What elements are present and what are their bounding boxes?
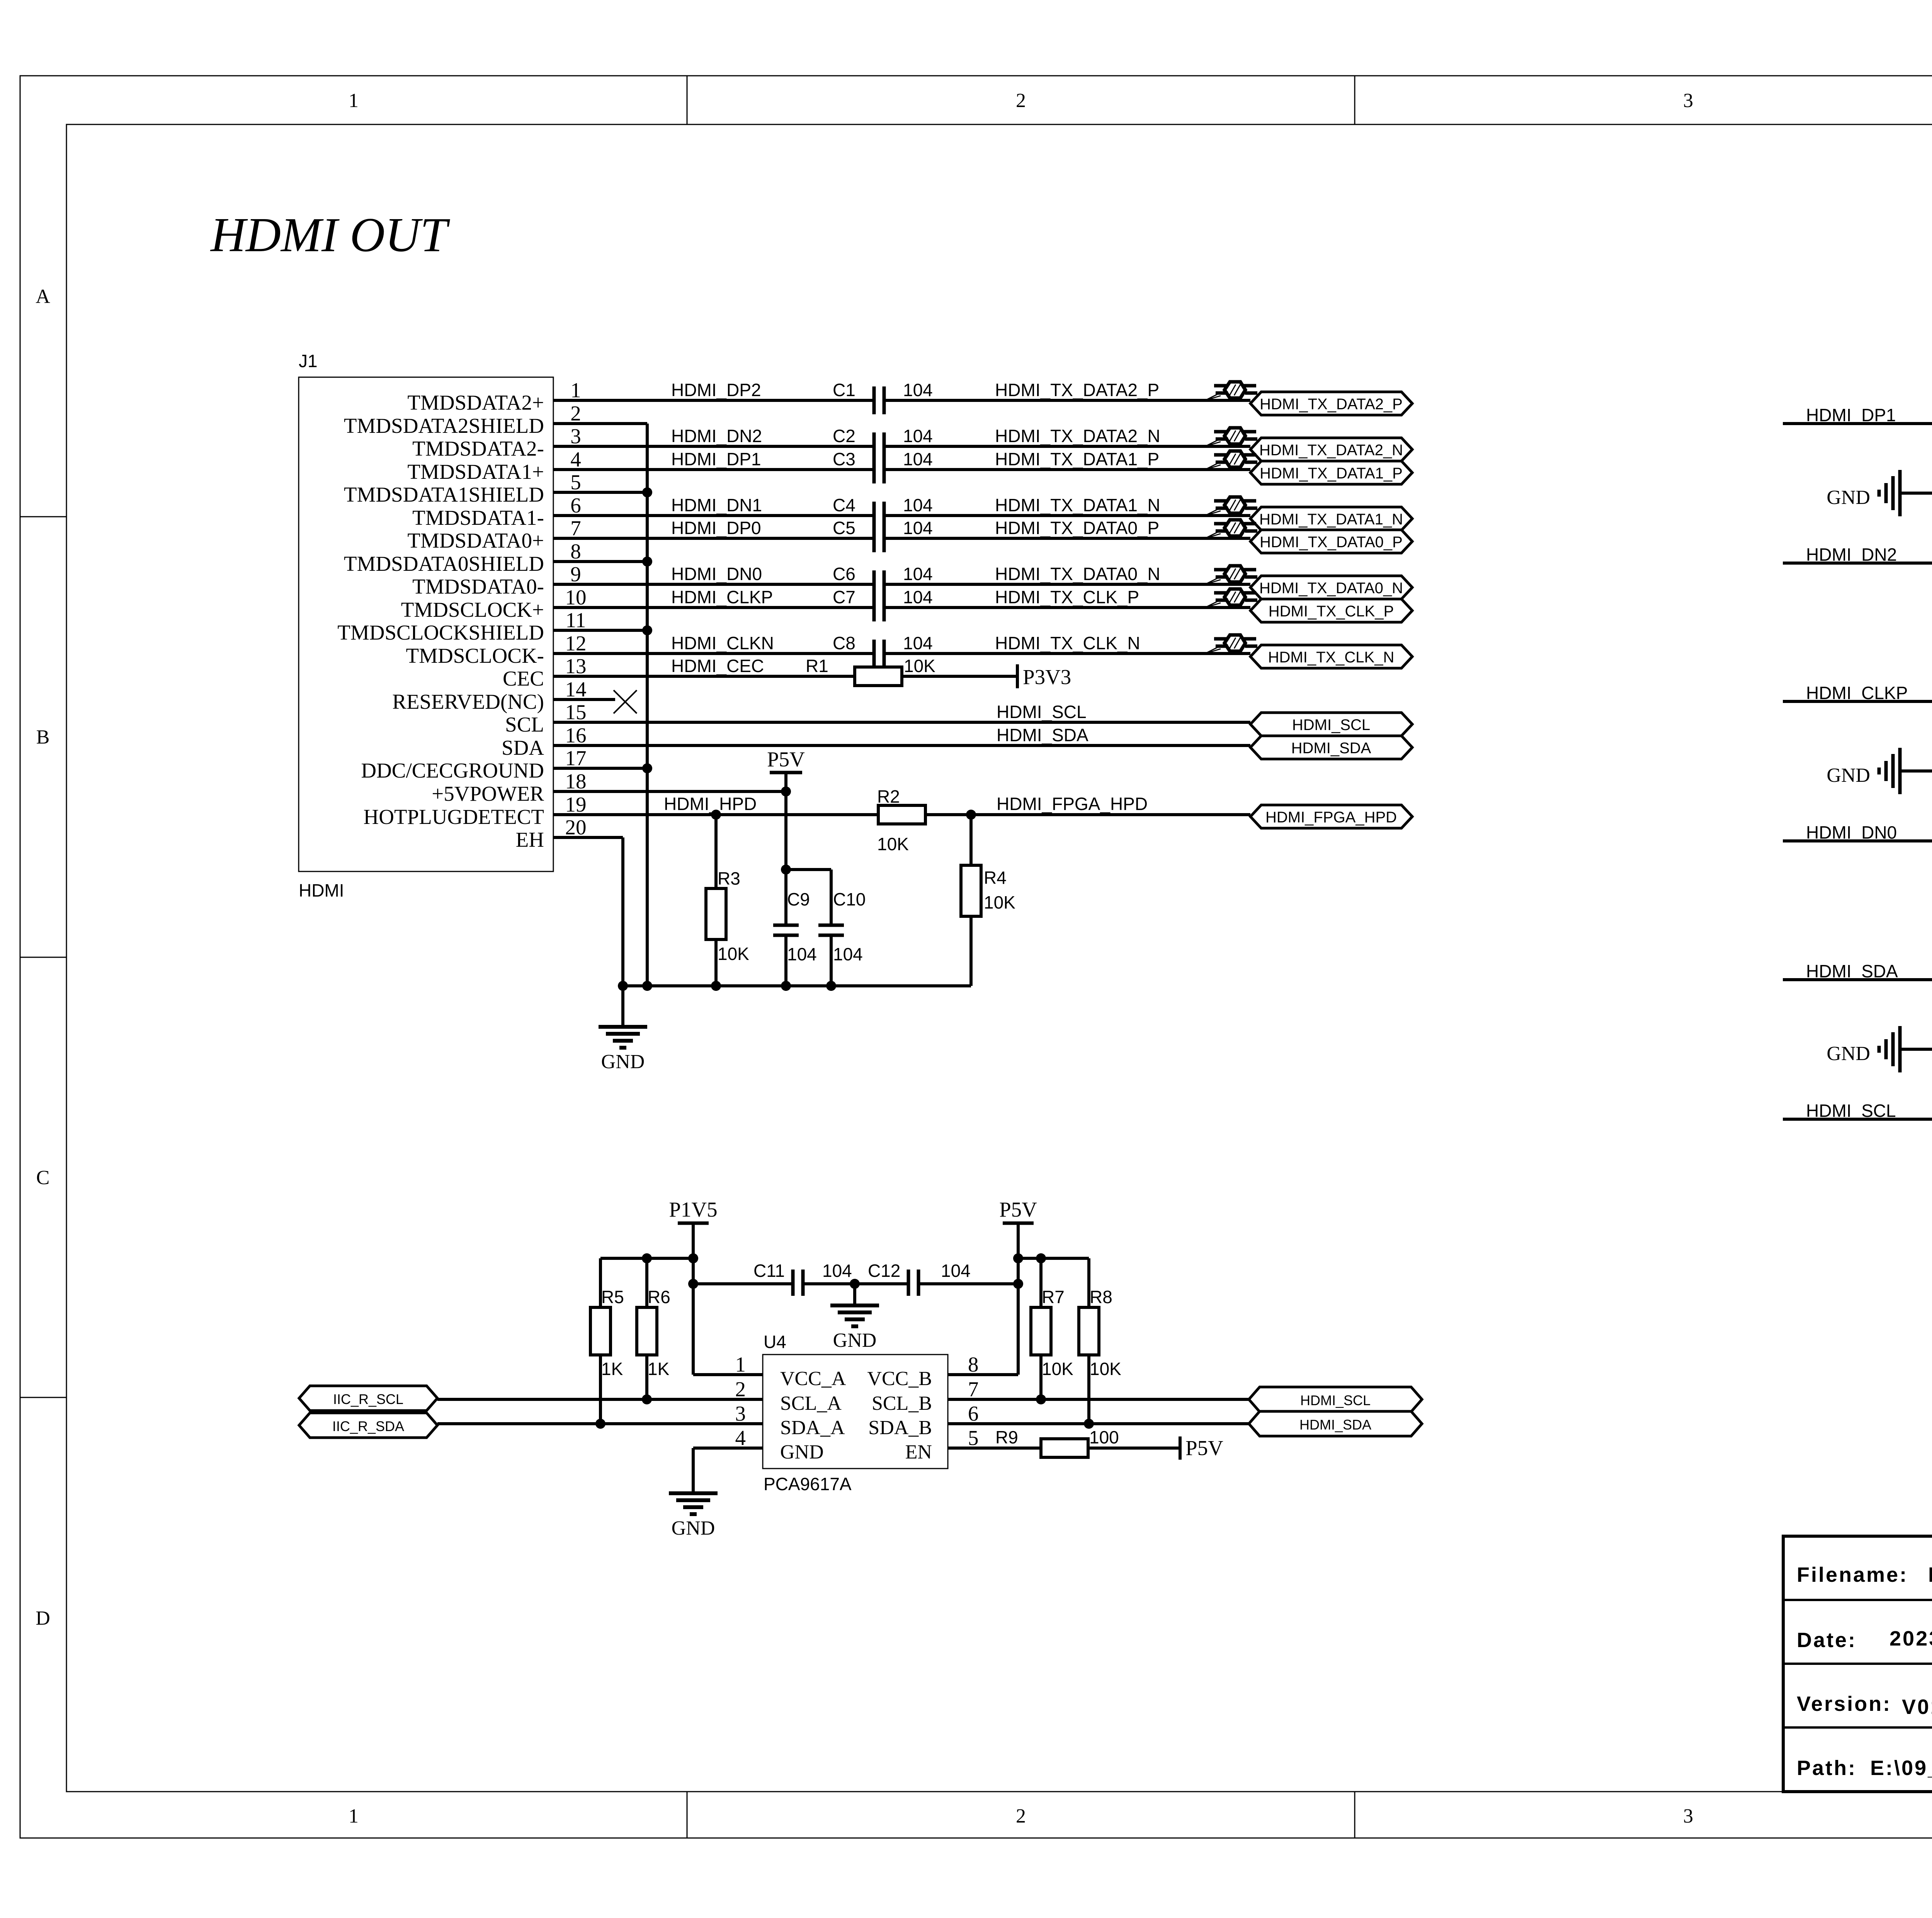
svg-text:7: 7	[968, 1377, 979, 1401]
port HDMI_SCL	[1250, 713, 1412, 736]
svg-text:GND: GND	[1827, 764, 1870, 786]
svg-text:HDMI_DN1: HDMI_DN1	[671, 495, 762, 515]
svg-text:8: 8	[570, 539, 581, 563]
svg-text:TMDSDATA2SHIELD: TMDSDATA2SHIELD	[344, 414, 544, 437]
port HDMI_SCL (bottom)	[1249, 1387, 1422, 1412]
svg-text:HDMI: HDMI	[299, 880, 344, 900]
junction dot R7/SCL_B	[1036, 1394, 1046, 1404]
svg-text:2: 2	[570, 402, 581, 425]
svg-text:TMDSDATA1-: TMDSDATA1-	[412, 506, 544, 529]
svg-text:HDMI_TX_CLK_N: HDMI_TX_CLK_N	[995, 633, 1140, 653]
svg-text:5: 5	[968, 1426, 979, 1450]
svg-text:3: 3	[570, 424, 581, 448]
svg-text:SDA_B: SDA_B	[868, 1417, 932, 1439]
wire J1 pin 14 (no connect)	[553, 698, 615, 701]
svg-text:6: 6	[570, 494, 581, 517]
junction dots on shield bus	[618, 487, 652, 991]
capacitor C4 104	[874, 502, 884, 529]
svg-text:7: 7	[570, 516, 581, 540]
junction dot pin18/P5V	[781, 786, 791, 796]
capacitor C9 104	[773, 870, 817, 986]
svg-text:HDMI_SDA: HDMI_SDA	[997, 725, 1088, 745]
net label HDMI_DP2	[671, 380, 761, 400]
resistor R5 1K	[590, 1287, 624, 1424]
svg-text:A: A	[36, 286, 50, 308]
svg-text:104: 104	[903, 380, 933, 400]
svg-text:P5V: P5V	[767, 747, 805, 771]
svg-text:3: 3	[1683, 1805, 1693, 1827]
svg-text:R3: R3	[718, 868, 740, 888]
net label HDMI_DN1	[671, 495, 762, 515]
svg-text:12: 12	[565, 631, 587, 655]
wire P1V5 to U4 VCC_A	[693, 1223, 763, 1375]
svg-text:104: 104	[903, 633, 933, 653]
svg-text:HOTPLUGDETECT: HOTPLUGDETECT	[364, 805, 544, 829]
svg-text:Path:: Path:	[1797, 1756, 1857, 1780]
ground GND (J1 shield)	[599, 986, 647, 1073]
svg-text:11: 11	[566, 608, 586, 632]
wire HDMI_FPGA_HPD	[925, 813, 1250, 816]
junction dot R3 bottom	[711, 981, 721, 991]
wire J1 pin 9 net HDMI_DN0	[553, 583, 1250, 586]
svg-text:2023/8/6: 2023/8/6	[1889, 1627, 1932, 1650]
wire J1 pin 10 net HDMI_CLKP	[553, 606, 1250, 609]
svg-text:HDMI_CLKN: HDMI_CLKN	[671, 633, 774, 653]
zone labels top	[349, 90, 1932, 112]
svg-text:P5V: P5V	[1185, 1436, 1223, 1460]
svg-text:EN: EN	[905, 1441, 932, 1463]
net label HDMI_CEC	[671, 656, 764, 676]
svg-text:6: 6	[968, 1402, 979, 1425]
capacitor C8 104	[874, 640, 884, 667]
svg-text:HDMI_FPGA_HPD: HDMI_FPGA_HPD	[997, 794, 1148, 814]
wire R9 to P5V	[1088, 1447, 1180, 1450]
value label 104 (C7)	[903, 587, 933, 607]
svg-text:R4: R4	[984, 868, 1007, 888]
zone labels bottom	[349, 1805, 1932, 1827]
svg-text:TMDSDATA2+: TMDSDATA2+	[407, 391, 544, 414]
wire C10 branch	[786, 870, 831, 924]
svg-text:D: D	[36, 1607, 50, 1629]
net label HDMI_FPGA_HPD	[997, 794, 1148, 814]
ground GND (C11/C12)	[830, 1284, 879, 1351]
differential pair directive (HDMI_TX_CLK_P)	[1205, 589, 1257, 608]
wire J1 pin 16 net HDMI_SDA	[553, 744, 1250, 747]
svg-text:104: 104	[903, 495, 933, 515]
resistor R9 100	[995, 1427, 1119, 1457]
svg-text:C12: C12	[868, 1261, 900, 1281]
wire J1 pin 19 HDMI_HPD	[553, 813, 878, 816]
svg-text:R9: R9	[995, 1427, 1018, 1447]
capacitor C10 104	[818, 889, 866, 986]
power P5V (EN pullup)	[1180, 1436, 1223, 1460]
svg-text:10K: 10K	[718, 944, 749, 964]
title block grid	[1783, 1536, 1932, 1792]
svg-text:HDMI_SDA: HDMI_SDA	[1806, 961, 1898, 981]
net label HDMI_SDA	[997, 725, 1088, 745]
connector J1 (HDMI receptacle)	[299, 351, 587, 900]
svg-text:HDMI_DN0: HDMI_DN0	[671, 564, 762, 584]
wire U4 EN to R9	[948, 1447, 1041, 1450]
designator label C6	[833, 564, 855, 584]
designator label C1	[833, 380, 855, 400]
svg-text:P5V: P5V	[999, 1198, 1037, 1221]
svg-text:104: 104	[903, 518, 933, 538]
svg-text:HDMI_TX_CLK_N: HDMI_TX_CLK_N	[1268, 649, 1395, 666]
differential pair directive (HDMI_TX_DATA0_N)	[1205, 566, 1257, 584]
value label 104 (C2)	[903, 426, 933, 446]
svg-text:GND: GND	[1827, 487, 1870, 509]
power P3V3	[1017, 664, 1071, 689]
net label HDMI_CLKN	[671, 633, 774, 653]
title block field Filename	[1797, 1563, 1932, 1586]
svg-text:4: 4	[735, 1426, 746, 1450]
wire shield bus (J1 pins 2,5,8,11,17,20 to GND)	[553, 424, 971, 986]
svg-text:14: 14	[565, 677, 587, 701]
port IIC_R_SCL	[299, 1386, 437, 1411]
svg-text:HDMI_SDA: HDMI_SDA	[1291, 740, 1371, 757]
svg-text:HDMI_TX_DATA2_N: HDMI_TX_DATA2_N	[1259, 442, 1403, 459]
svg-text:17: 17	[565, 746, 587, 770]
port HDMI_TX_DATA0_N	[1250, 576, 1412, 599]
svg-text:HDMI_SCL: HDMI_SCL	[1292, 716, 1370, 734]
svg-text:1K: 1K	[648, 1359, 670, 1379]
value label 104 (C5)	[903, 518, 933, 538]
port IIC_R_SDA	[299, 1413, 437, 1438]
svg-text:1: 1	[570, 378, 581, 402]
svg-text:HDMI_TX_CLK_P: HDMI_TX_CLK_P	[995, 587, 1139, 607]
svg-text:HDMI OUT: HDMI OUT	[210, 208, 450, 262]
wire U4 GND pin to ground	[693, 1448, 763, 1493]
svg-text:HDMI_TX_DATA0_N: HDMI_TX_DATA0_N	[995, 564, 1160, 584]
svg-text:5: 5	[570, 470, 581, 494]
resistor R8 10K	[1079, 1287, 1121, 1424]
svg-text:U4: U4	[764, 1332, 786, 1352]
designator label C2	[833, 426, 855, 446]
svg-text:VCC_A: VCC_A	[780, 1368, 846, 1390]
svg-text:104: 104	[941, 1261, 971, 1281]
svg-text:10: 10	[565, 585, 587, 609]
port HDMI_TX_DATA1_N	[1250, 507, 1412, 530]
svg-text:HDMI_TX_DATA0_P: HDMI_TX_DATA0_P	[1260, 534, 1403, 551]
value label 104 (C1)	[903, 380, 933, 400]
svg-text:VCC_B: VCC_B	[867, 1368, 932, 1390]
junction dot R5/SDA	[595, 1419, 605, 1429]
wire decoupling row C11/C12	[693, 1282, 1018, 1285]
designator label C3	[833, 449, 855, 469]
svg-text:1K: 1K	[601, 1359, 623, 1379]
svg-text:9: 9	[570, 562, 581, 586]
svg-text:HDMI_CLKP: HDMI_CLKP	[671, 587, 773, 607]
port HDMI_FPGA_HPD	[1250, 805, 1412, 828]
svg-text:HDMI_CEC: HDMI_CEC	[671, 656, 764, 676]
port HDMI_TX_CLK_P	[1250, 599, 1412, 622]
svg-text:Filename:: Filename:	[1797, 1563, 1908, 1586]
svg-text:C: C	[36, 1167, 50, 1189]
junction dot R8/SDA_B	[1084, 1419, 1094, 1429]
wire J1 pin 3 net HDMI_DN2	[553, 445, 1250, 448]
net label HDMI_TX_DATA2_P	[995, 380, 1159, 400]
junction dot C9 top branch	[781, 865, 791, 875]
svg-text:2: 2	[735, 1377, 746, 1401]
svg-text:SDA_A: SDA_A	[780, 1417, 845, 1439]
wire P5V rail to R7/R8	[1018, 1258, 1089, 1307]
svg-text:HDMI_DP2: HDMI_DP2	[671, 380, 761, 400]
junction dot P5V rail	[1013, 1253, 1046, 1263]
svg-text:HDMI_DN2: HDMI_DN2	[671, 426, 762, 446]
svg-text:HDMI_TX_DATA2_N: HDMI_TX_DATA2_N	[995, 426, 1160, 446]
junction dots C9/C10 bottom	[781, 981, 836, 991]
svg-text:4: 4	[570, 448, 581, 471]
capacitor C3 104	[874, 456, 884, 483]
svg-text:HDMI_TX_DATA1_N: HDMI_TX_DATA1_N	[1259, 511, 1403, 528]
svg-text:C6: C6	[833, 564, 855, 584]
net label HDMI_DP1	[671, 449, 761, 469]
wire J1 pin 7 net HDMI_DP0	[553, 537, 1250, 540]
svg-text:HDMI_HPD: HDMI_HPD	[664, 794, 757, 814]
IC U4 PCA9617A	[735, 1332, 979, 1494]
svg-text:DDC/CECGROUND: DDC/CECGROUND	[361, 759, 544, 782]
net label HDMI_DP0	[671, 518, 761, 538]
net label HDMI_TX_DATA0_N	[995, 564, 1160, 584]
svg-text:10K: 10K	[1090, 1359, 1121, 1379]
designator label C4	[833, 495, 855, 515]
svg-text:+5VPOWER: +5VPOWER	[432, 782, 544, 805]
svg-text:HDMI_TX_DATA2_P: HDMI_TX_DATA2_P	[1260, 396, 1403, 413]
svg-text:Date:: Date:	[1797, 1629, 1857, 1652]
net label HDMI_SCL	[997, 702, 1087, 722]
wire P5V to U4 VCC_B	[948, 1223, 1018, 1375]
svg-text:B: B	[36, 726, 50, 748]
svg-text:HDMI_TX_DATA1_P: HDMI_TX_DATA1_P	[995, 449, 1159, 469]
wires U3 pins and internal rails	[1783, 956, 1932, 1143]
svg-text:GND: GND	[601, 1051, 645, 1073]
net label HDMI_TX_CLK_P	[995, 587, 1139, 607]
svg-text:HDMI.SchDoc: HDMI.SchDoc	[1928, 1563, 1932, 1586]
wire U4 SCL_B to HDMI_SCL port	[948, 1398, 1249, 1401]
svg-text:10K: 10K	[877, 834, 909, 854]
svg-text:GND: GND	[672, 1517, 715, 1539]
svg-text:18: 18	[565, 769, 587, 793]
svg-text:HDMI_DN0: HDMI_DN0	[1806, 822, 1897, 842]
svg-text:C3: C3	[833, 449, 855, 469]
wire J1 pin 1 net HDMI_DP2	[553, 399, 1250, 402]
port HDMI_SDA	[1250, 736, 1412, 759]
title block field Date	[1797, 1627, 1932, 1652]
svg-text:HDMI_SCL: HDMI_SCL	[997, 702, 1087, 722]
title block field Path	[1797, 1756, 1932, 1780]
svg-text:HDMI_FPGA_HPD: HDMI_FPGA_HPD	[1265, 809, 1397, 826]
differential pair directive (HDMI_TX_DATA2_N)	[1205, 428, 1257, 446]
svg-text:HDMI_DN2: HDMI_DN2	[1806, 545, 1897, 565]
resistor R4 10K	[961, 815, 1015, 986]
svg-text:HDMI_DP0: HDMI_DP0	[671, 518, 761, 538]
differential pair directive (HDMI_TX_DATA1_P)	[1205, 451, 1257, 470]
svg-text:13: 13	[565, 654, 587, 678]
zone labels left	[36, 286, 50, 1629]
ground GND (U2 pin 2)	[1827, 748, 1900, 794]
svg-text:RESERVED(NC): RESERVED(NC)	[392, 690, 544, 713]
net labels around U1	[1806, 405, 1932, 565]
svg-text:HDMI_SDA: HDMI_SDA	[1299, 1417, 1371, 1433]
svg-text:HDMI_DP1: HDMI_DP1	[1806, 405, 1896, 425]
wire IIC_R_SCL to U4 SCL_A	[437, 1398, 763, 1401]
resistor R2 10K	[877, 786, 925, 854]
svg-text:TMDSCLOCK-: TMDSCLOCK-	[406, 644, 544, 667]
svg-text:R6: R6	[648, 1287, 670, 1307]
svg-text:TMDSDATA0SHIELD: TMDSDATA0SHIELD	[344, 552, 544, 575]
port HDMI_TX_DATA0_P	[1250, 530, 1412, 553]
svg-text:SCL_B: SCL_B	[872, 1392, 932, 1414]
net labels around U2	[1806, 683, 1932, 842]
svg-text:PCA9617A: PCA9617A	[764, 1474, 852, 1494]
svg-text:2: 2	[1016, 1805, 1026, 1827]
svg-text:19: 19	[565, 793, 587, 816]
port HDMI_TX_DATA1_P	[1250, 461, 1412, 484]
value label 104 (C4)	[903, 495, 933, 515]
differential pair directive (HDMI_TX_DATA1_N)	[1205, 497, 1257, 516]
svg-text:TMDSDATA0+: TMDSDATA0+	[407, 529, 544, 552]
net label HDMI_DN2	[671, 426, 762, 446]
wire J1 pin 6 net HDMI_DN1	[553, 514, 1250, 517]
svg-text:HDMI_TX_DATA2_P: HDMI_TX_DATA2_P	[995, 380, 1159, 400]
svg-text:104: 104	[787, 944, 817, 964]
junction dots P1V5 rail	[642, 1253, 698, 1263]
svg-text:TMDSDATA0-: TMDSDATA0-	[412, 575, 544, 598]
differential pair directive (HDMI_TX_DATA2_P)	[1205, 382, 1257, 400]
power P1V5	[669, 1198, 717, 1223]
svg-text:TMDSCLOCKSHIELD: TMDSCLOCKSHIELD	[337, 621, 544, 644]
net label HDMI_CLKP	[671, 587, 773, 607]
capacitor C5 104	[874, 524, 884, 552]
svg-text:GND: GND	[833, 1329, 877, 1351]
net label HDMI_HPD	[664, 794, 757, 814]
capacitor C1 104	[874, 386, 884, 414]
svg-text:EH: EH	[516, 828, 544, 851]
svg-text:104: 104	[903, 449, 933, 469]
port HDMI_TX_DATA2_N	[1250, 438, 1412, 461]
wire IIC_R_SDA to U4 SDA_A	[437, 1422, 763, 1425]
designator label C7	[833, 587, 855, 607]
svg-text:V01: V01	[1902, 1695, 1932, 1719]
value label 104 (C3)	[903, 449, 933, 469]
svg-text:1: 1	[349, 1805, 359, 1827]
svg-text:104: 104	[903, 564, 933, 584]
svg-text:104: 104	[833, 944, 863, 964]
svg-text:SCL_A: SCL_A	[780, 1392, 842, 1414]
wire U4 SDA_B to HDMI_SDA port	[948, 1422, 1249, 1425]
wire P1V5 rail to R5/R6	[600, 1258, 693, 1307]
wire J1 pin 13 net HDMI_CEC	[553, 675, 1017, 678]
port HDMI_TX_CLK_N	[1250, 645, 1412, 668]
power P5V (HDMI +5V)	[767, 747, 805, 870]
differential pair directive (HDMI_TX_DATA0_P)	[1205, 520, 1257, 538]
capacitor C12 104	[868, 1261, 971, 1296]
svg-text:IIC_R_SDA: IIC_R_SDA	[332, 1418, 404, 1434]
resistor R3 10K	[706, 815, 749, 986]
svg-text:HDMI_TX_DATA1_N: HDMI_TX_DATA1_N	[995, 495, 1160, 515]
designator label C8	[833, 633, 855, 653]
differential pair directive (HDMI_TX_CLK_N)	[1205, 635, 1257, 654]
svg-text:2: 2	[1016, 90, 1026, 112]
svg-text:R1: R1	[806, 656, 828, 676]
svg-text:CEC: CEC	[503, 667, 544, 690]
svg-text:TMDSDATA1+: TMDSDATA1+	[407, 460, 544, 483]
svg-text:Version:: Version:	[1797, 1692, 1891, 1715]
svg-text:104: 104	[903, 426, 933, 446]
svg-text:20: 20	[565, 815, 587, 839]
svg-text:HDMI_DP1: HDMI_DP1	[671, 449, 761, 469]
svg-text:P1V5: P1V5	[669, 1198, 717, 1221]
net label HDMI_TX_DATA2_N	[995, 426, 1160, 446]
wire J1 pin 12 net HDMI_CLKN	[553, 652, 1250, 655]
svg-text:8: 8	[968, 1353, 979, 1376]
svg-text:J1: J1	[299, 351, 318, 371]
net label HDMI_TX_DATA0_P	[995, 518, 1159, 538]
svg-text:TMDSDATA1SHIELD: TMDSDATA1SHIELD	[344, 483, 544, 506]
junction dots HPD row	[711, 810, 976, 820]
net label HDMI_TX_DATA1_P	[995, 449, 1159, 469]
svg-text:C10: C10	[833, 889, 866, 909]
net label HDMI_TX_DATA1_N	[995, 495, 1160, 515]
svg-text:SDA: SDA	[502, 736, 544, 759]
svg-text:10K: 10K	[1042, 1359, 1073, 1379]
resistor R6 1K	[637, 1287, 670, 1399]
svg-text:R2: R2	[877, 786, 900, 807]
svg-text:HDMI_SCL: HDMI_SCL	[1806, 1101, 1896, 1121]
svg-text:TMDSCLOCK+: TMDSCLOCK+	[401, 598, 544, 621]
ground GND (U4)	[669, 1493, 718, 1539]
svg-text:C7: C7	[833, 587, 855, 607]
value label 104 (C8)	[903, 633, 933, 653]
svg-text:R8: R8	[1090, 1287, 1112, 1307]
svg-text:3: 3	[1683, 90, 1693, 112]
svg-text:R7: R7	[1042, 1287, 1065, 1307]
wire J1 pin 15 net HDMI_SCL	[553, 721, 1250, 724]
net labels around U3	[1806, 961, 1932, 1121]
svg-text:1: 1	[349, 90, 359, 112]
svg-text:100: 100	[1089, 1427, 1119, 1447]
svg-text:C2: C2	[833, 426, 855, 446]
svg-text:C4: C4	[833, 495, 855, 515]
svg-text:IIC_R_SCL: IIC_R_SCL	[333, 1391, 403, 1407]
svg-text:C8: C8	[833, 633, 855, 653]
wire J1 pin 18 (+5VPOWER) to P5V	[553, 790, 786, 793]
svg-text:104: 104	[822, 1261, 852, 1281]
wires U1 pins and internal rails	[1783, 400, 1932, 587]
svg-text:3: 3	[735, 1402, 746, 1425]
svg-text:15: 15	[565, 700, 587, 724]
svg-text:R5: R5	[601, 1287, 624, 1307]
svg-text:P3V3: P3V3	[1023, 665, 1071, 689]
svg-text:HDMI_TX_DATA0_N: HDMI_TX_DATA0_N	[1259, 580, 1403, 597]
capacitor C7 104	[874, 594, 884, 621]
svg-text:HDMI_TX_CLK_P: HDMI_TX_CLK_P	[1269, 603, 1394, 620]
svg-text:HDMI_TX_DATA0_P: HDMI_TX_DATA0_P	[995, 518, 1159, 538]
resistor R1 10K	[806, 656, 935, 686]
svg-text:C9: C9	[787, 889, 810, 909]
port HDMI_SDA (bottom)	[1249, 1411, 1422, 1436]
capacitor C2 104	[874, 432, 884, 460]
svg-text:10K: 10K	[904, 656, 935, 676]
junction dot R6/SCL	[642, 1394, 652, 1404]
resistor R7 10K	[1031, 1287, 1073, 1399]
net label HDMI_DN0	[671, 564, 762, 584]
svg-text:HDMI_TX_DATA1_P: HDMI_TX_DATA1_P	[1260, 465, 1403, 482]
net label HDMI_TX_CLK_N	[995, 633, 1140, 653]
svg-text:SCL: SCL	[505, 713, 544, 736]
svg-text:C1: C1	[833, 380, 855, 400]
